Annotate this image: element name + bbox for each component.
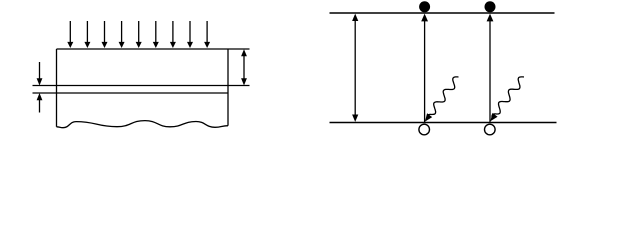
- electron transition arrow 2: [487, 14, 494, 123]
- photon squiggle arrow 2: [490, 77, 524, 121]
- incident radiation arrow 5: [136, 21, 142, 48]
- incident radiation arrow 3: [102, 21, 108, 48]
- incident radiation arrow 6: [153, 21, 159, 48]
- absorption depth line upper (with left and right extensions): [33, 85, 250, 87]
- slab left edge: [56, 49, 58, 127]
- incident radiation arrow 8: [187, 21, 193, 48]
- photon squiggle arrow 1: [425, 77, 459, 122]
- incident radiation arrow 9: [204, 21, 210, 48]
- left thickness dimension lower segment (arrow up): [37, 93, 43, 113]
- conduction band level (top line): [330, 12, 555, 14]
- electron transition arrow 1: [421, 14, 428, 123]
- incident radiation arrow 1: [67, 21, 73, 48]
- slab right edge: [227, 49, 229, 126]
- incident radiation arrow 4: [119, 21, 125, 48]
- incident radiation arrow 7: [170, 21, 176, 48]
- left thickness dimension upper segment (arrow down): [37, 62, 43, 86]
- valence band level (bottom line): [330, 122, 557, 124]
- right thickness dimension double arrow: [241, 49, 247, 85]
- electron (filled circle) 1: [419, 1, 430, 12]
- slab top edge with right extension line: [57, 48, 250, 50]
- thin layer lower line (with left extension): [33, 92, 229, 94]
- hole (open circle) 2: [485, 124, 496, 135]
- band gap dimension double arrow: [352, 14, 358, 122]
- incident radiation arrow 2: [84, 21, 90, 48]
- electron (filled circle) 2: [485, 1, 496, 12]
- hole (open circle) 1: [419, 124, 430, 135]
- slab bottom break wavy line: [57, 121, 229, 128]
